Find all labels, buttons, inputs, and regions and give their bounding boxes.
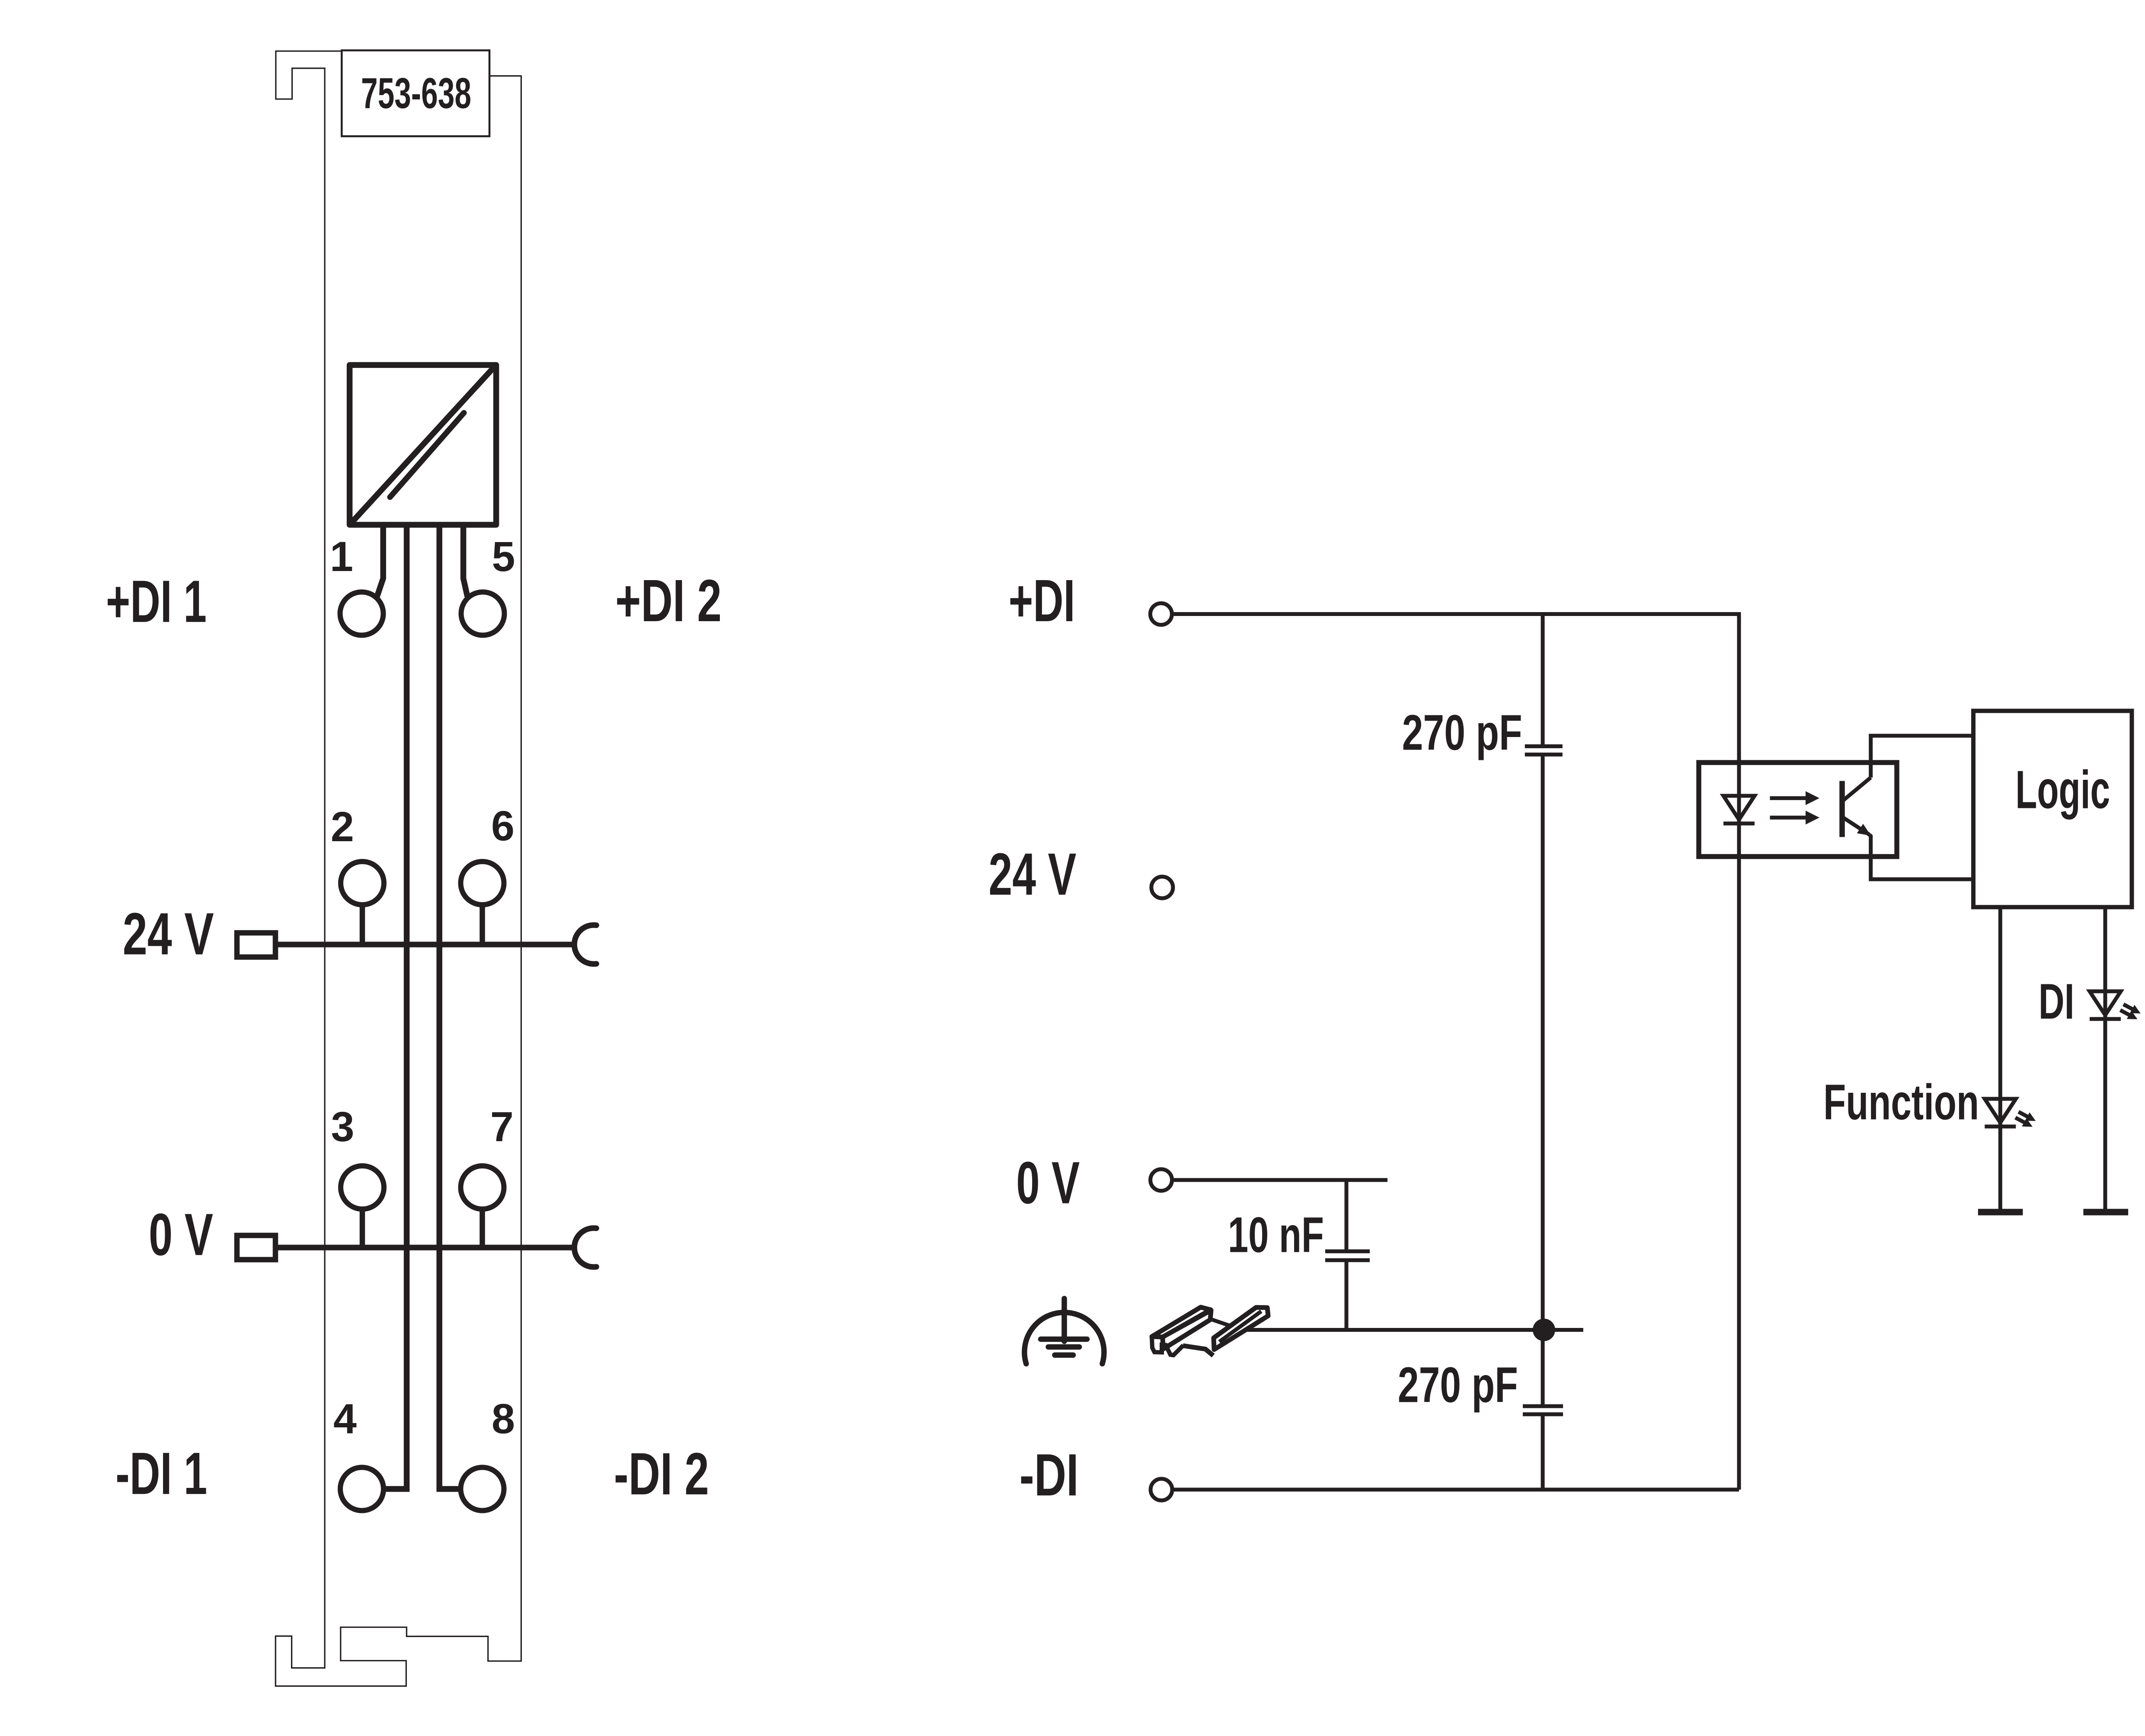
svg-text:0 V: 0 V <box>149 1201 213 1268</box>
svg-text:1: 1 <box>330 533 353 580</box>
svg-text:10 nF: 10 nF <box>1228 1207 1324 1263</box>
wire 0V to 10nF capacitor <box>1345 1180 1349 1251</box>
svg-text:270 pF: 270 pF <box>1402 705 1522 761</box>
collector wire to Logic <box>1871 736 1973 778</box>
vertical net +DI to capacitor chain <box>1541 614 1545 747</box>
optocoupler LED <box>1723 796 1755 820</box>
svg-text:4: 4 <box>333 1395 357 1442</box>
pin 5 terminal circle <box>461 592 505 635</box>
svg-text:5: 5 <box>492 533 515 580</box>
+DI wire to optocoupler <box>1173 614 1739 796</box>
pin 3 terminal circle <box>341 1166 384 1209</box>
LED DI <box>2090 991 2121 1015</box>
svg-text:24 V: 24 V <box>988 841 1076 908</box>
ground rail wire <box>1242 1328 1583 1332</box>
module outline (753-638 side view) <box>275 51 521 1686</box>
DIN rail icon <box>1152 1307 1268 1356</box>
wire lower capacitor to -DI wire <box>1541 1414 1545 1490</box>
pin 2 terminal circle <box>341 862 384 905</box>
svg-text:2: 2 <box>331 803 354 850</box>
internal power supply square with diagonal <box>350 365 496 525</box>
pin 7 terminal circle <box>461 1166 504 1209</box>
svg-text:7: 7 <box>490 1103 514 1150</box>
svg-text:270 pF: 270 pF <box>1398 1356 1518 1413</box>
svg-text:DI: DI <box>2039 973 2075 1029</box>
internal ground bar left <box>1978 1209 2023 1216</box>
optocoupler phototransistor <box>1842 778 1871 837</box>
junction dot on ground net <box>1533 1319 1555 1341</box>
stub wire pin 7 to 0V rail <box>480 1207 485 1248</box>
capacitor 10 nF <box>1325 1251 1370 1260</box>
svg-text:8: 8 <box>492 1395 515 1442</box>
svg-text:753-638: 753-638 <box>361 69 471 118</box>
svg-text:+DI 1: +DI 1 <box>106 568 207 635</box>
24V power rail with external terminal and jumper contact <box>237 925 596 964</box>
chassis ground symbol <box>1024 1299 1104 1364</box>
node 0V open circle <box>1151 1169 1172 1191</box>
order number label box 753-638 <box>342 51 489 137</box>
svg-text:0 V: 0 V <box>1016 1150 1080 1216</box>
node 24V open circle <box>1151 877 1173 898</box>
Logic box U1 <box>1973 711 2132 907</box>
svg-text:Logic: Logic <box>2015 760 2110 820</box>
wire from supply square to pin 4 <box>384 523 407 1489</box>
stub wire pin 3 to 0V rail <box>360 1207 365 1248</box>
pin 8 terminal circle <box>461 1468 504 1511</box>
pin 1 terminal circle <box>340 592 384 635</box>
stub wire pin 6 to 24V rail <box>480 903 485 945</box>
svg-text:+DI: +DI <box>1009 568 1075 634</box>
wire through optocoupler LED down to -DI <box>1737 796 1741 1490</box>
wire from supply square to pin 1 <box>377 523 383 597</box>
pin 4 terminal circle <box>340 1468 384 1511</box>
svg-text:-DI 2: -DI 2 <box>614 1441 709 1507</box>
0V wire <box>1173 1178 1387 1182</box>
svg-text:3: 3 <box>331 1103 355 1150</box>
svg-text:Function: Function <box>1823 1074 1979 1130</box>
emitter wire to Logic <box>1870 835 1973 879</box>
svg-text:6: 6 <box>491 802 515 849</box>
capacitor 270 pF (upper) <box>1525 746 1563 754</box>
wire from supply square to pin 5 <box>464 523 467 597</box>
node -DI open circle <box>1151 1479 1172 1500</box>
0V power rail with external terminal and jumper contact <box>237 1228 596 1267</box>
pin 6 terminal circle <box>461 862 504 905</box>
svg-text:24 V: 24 V <box>123 901 214 967</box>
optocoupler box <box>1699 763 1897 857</box>
LED Function <box>1985 1099 2016 1123</box>
capacitor 270 pF (lower) <box>1523 1406 1563 1414</box>
wire Logic to Function LED and internal ground <box>1998 907 2002 1212</box>
optocoupler light arrows <box>1770 796 1809 800</box>
node +DI open circle <box>1150 603 1172 625</box>
-DI wire <box>1173 1488 1739 1492</box>
wire 10nF capacitor to ground rail <box>1345 1260 1349 1330</box>
internal ground bar right <box>2083 1209 2128 1216</box>
wire from supply square to pin 8 <box>439 523 460 1489</box>
stub wire pin 2 to 24V rail <box>360 903 365 945</box>
wire Logic to DI LED and internal ground <box>2103 907 2107 1212</box>
wire capacitor to ground junction <box>1541 755 1545 1407</box>
svg-text:-DI: -DI <box>1020 1442 1079 1509</box>
svg-text:-DI 1: -DI 1 <box>115 1440 207 1507</box>
svg-text:+DI 2: +DI 2 <box>615 568 722 634</box>
